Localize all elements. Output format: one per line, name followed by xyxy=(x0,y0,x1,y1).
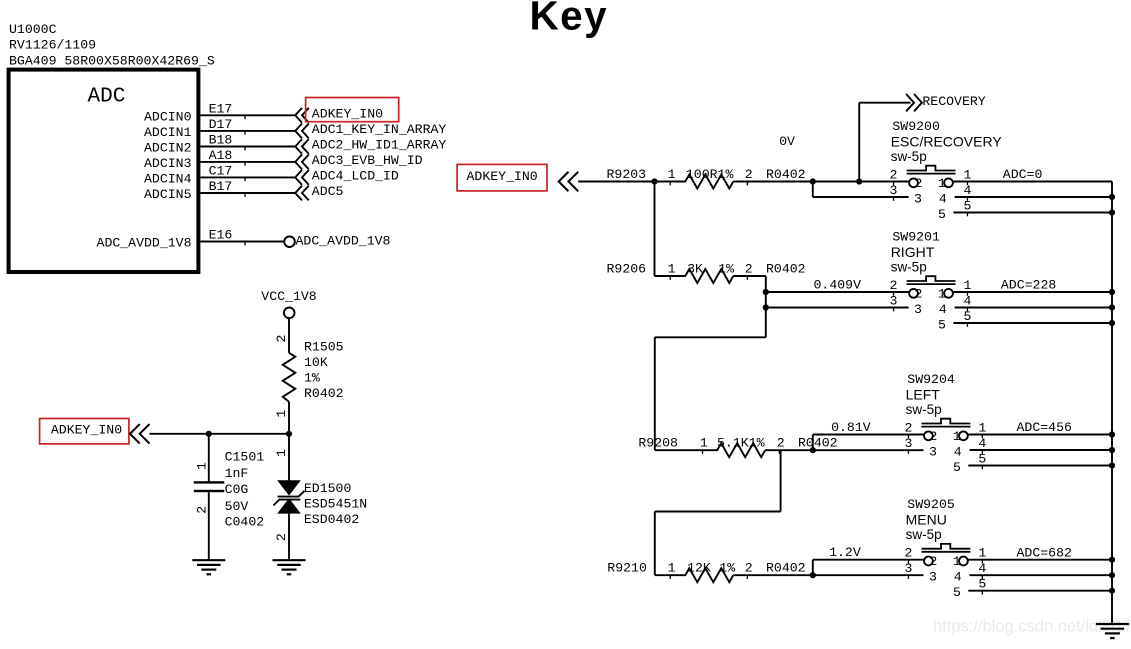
svg-text:SW9204: SW9204 xyxy=(907,372,955,387)
net label ADKEY_IN0 (red box, left) xyxy=(40,419,129,444)
off-page connector net ADKEY_IN0 xyxy=(295,106,383,122)
svg-text:3: 3 xyxy=(929,570,937,585)
wire ADKEY_IN0 to R9203 xyxy=(578,181,686,183)
svg-text:2: 2 xyxy=(890,167,898,182)
svg-text:sw-5p: sw-5p xyxy=(906,527,942,542)
pin numbers (outer) xyxy=(890,167,972,216)
svg-text:ADKEY_IN0: ADKEY_IN0 xyxy=(51,423,122,438)
svg-text:https://blog.csdn.net/ldl8l17: https://blog.csdn.net/ldl8l17 xyxy=(933,618,1131,636)
junction SW9201 pin2 xyxy=(763,289,769,295)
voltage label 0.81V xyxy=(831,420,871,435)
svg-text:ADC5: ADC5 xyxy=(312,184,344,199)
wire chain down to R9206 xyxy=(654,182,656,277)
svg-text:ADC_AVDD_1V8: ADC_AVDD_1V8 xyxy=(97,236,192,251)
svg-text:ADKEY_IN0: ADKEY_IN0 xyxy=(467,169,538,184)
IC U1000C RV1126/1109 ADC block xyxy=(9,22,215,272)
wire SW9200 pin1 to bus xyxy=(953,181,1112,183)
off-page connector net RECOVERY xyxy=(906,94,986,111)
value label ADC=228 xyxy=(1001,278,1056,293)
svg-text:ADCIN1: ADCIN1 xyxy=(144,125,192,140)
svg-text:1%: 1% xyxy=(304,370,320,385)
svg-text:R0402: R0402 xyxy=(766,262,806,277)
junction pin3 step xyxy=(810,178,816,184)
TVS diode ED1500 ESD5451N ESD0402 xyxy=(273,449,367,541)
junction bus/SW9200 pin4 xyxy=(1109,194,1115,200)
svg-text:ADC2_HW_ID1_ARRAY: ADC2_HW_ID1_ARRAY xyxy=(312,138,447,153)
wire stub up to SW9204 pin2 xyxy=(813,435,925,451)
svg-text:B18: B18 xyxy=(209,133,233,148)
svg-text:B17: B17 xyxy=(209,179,233,194)
svg-text:5: 5 xyxy=(953,585,961,600)
svg-text:1: 1 xyxy=(274,449,289,457)
wire to SW9201 pin3 xyxy=(766,307,909,309)
svg-text:1: 1 xyxy=(963,167,971,182)
pin ADCIN4 (C17) wire xyxy=(144,164,296,187)
svg-text:1%: 1% xyxy=(719,561,735,576)
pin ADCIN1 (D17) wire xyxy=(144,117,296,140)
svg-text:C0G: C0G xyxy=(225,482,249,497)
svg-text:4: 4 xyxy=(939,302,947,317)
wire ADKEY_IN0 node horizontal xyxy=(150,433,290,435)
svg-text:2: 2 xyxy=(745,167,753,182)
svg-text:ADCIN3: ADCIN3 xyxy=(144,156,192,171)
ground (bus) xyxy=(1096,624,1129,638)
pin ADCIN0 (E17) wire xyxy=(144,102,296,125)
wire R1505 to node xyxy=(288,402,290,434)
svg-text:1nF: 1nF xyxy=(225,466,249,481)
svg-text:ADCIN0: ADCIN0 xyxy=(144,109,192,124)
junction RECOVERY branch xyxy=(856,178,862,184)
wire SW9204 pin4 to bus xyxy=(970,449,1113,451)
voltage label 1.2V xyxy=(829,545,861,560)
pin ADCIN2 (B18) wire xyxy=(144,133,296,156)
svg-text:1: 1 xyxy=(953,554,961,569)
voltage label 0V xyxy=(779,134,795,149)
pin numbers (outer) xyxy=(904,420,986,469)
resistor R9203 100R1% R0402 xyxy=(607,167,806,189)
svg-text:R9210: R9210 xyxy=(607,561,647,576)
svg-text:1: 1 xyxy=(194,462,209,470)
svg-text:1: 1 xyxy=(274,410,289,418)
svg-text:sw-5p: sw-5p xyxy=(891,149,927,164)
wire step down to pin3 xyxy=(813,182,909,198)
svg-text:1: 1 xyxy=(953,429,961,444)
svg-text:2: 2 xyxy=(929,554,937,569)
junction to R9206 chain xyxy=(651,178,657,184)
switch SW9200 ESC/RECOVERY sw-5p xyxy=(890,119,1003,222)
pin numbers (outer) xyxy=(890,278,972,327)
wire R9206 row xyxy=(655,275,766,277)
svg-text:5: 5 xyxy=(938,317,946,332)
svg-text:100R1%: 100R1% xyxy=(686,167,734,182)
wire to SW9201 pin2 xyxy=(766,291,910,293)
svg-text:E16: E16 xyxy=(209,228,233,243)
svg-text:SW9201: SW9201 xyxy=(892,229,940,244)
wire chain vertical at 765.8 xyxy=(765,276,767,337)
wire node to ED1500 xyxy=(288,434,290,481)
svg-text:2: 2 xyxy=(914,287,922,302)
svg-text:ADC4_LCD_ID: ADC4_LCD_ID xyxy=(312,168,399,183)
svg-text:5: 5 xyxy=(938,207,946,222)
wire C1501 to ground xyxy=(208,492,210,560)
junction C1501 branch xyxy=(206,431,212,437)
svg-text:2: 2 xyxy=(274,335,289,343)
svg-text:RV1126/1109: RV1126/1109 xyxy=(9,38,96,53)
svg-text:RIGHT: RIGHT xyxy=(891,244,935,260)
pin numbers (outer) xyxy=(904,546,986,595)
pin ADCIN3 (A18) wire xyxy=(144,148,296,171)
pin ADC_AVDD_1V8 (E16) wire xyxy=(97,228,284,251)
svg-text:R0402: R0402 xyxy=(304,386,344,401)
svg-text:0.409V: 0.409V xyxy=(814,278,862,293)
svg-text:2: 2 xyxy=(904,546,912,561)
svg-text:R1505: R1505 xyxy=(304,340,344,355)
svg-text:RECOVERY: RECOVERY xyxy=(922,94,985,109)
svg-text:ADC1_KEY_IN_ARRAY: ADC1_KEY_IN_ARRAY xyxy=(312,122,447,137)
svg-text:2: 2 xyxy=(274,533,289,541)
svg-text:2: 2 xyxy=(745,561,753,576)
wire to RECOVERY xyxy=(859,103,910,182)
junction R1505/ED1500 branch xyxy=(286,431,292,437)
pin ADCIN5 (B17) wire xyxy=(144,179,296,202)
off-page connector ADKEY_IN0 left xyxy=(130,424,150,444)
svg-text:1: 1 xyxy=(938,287,946,302)
svg-text:R9208: R9208 xyxy=(638,436,678,451)
svg-text:2: 2 xyxy=(890,278,898,293)
svg-text:1: 1 xyxy=(963,278,971,293)
junction SW9201 pin3 xyxy=(763,304,769,310)
junction bus/SW9201 pin5 xyxy=(1109,320,1115,326)
junction SW9205 pin2 stub xyxy=(810,572,816,578)
off-page connector net ADC2_HW_ID1_ARRAY xyxy=(295,138,446,154)
off-page connector net ADC4_LCD_ID xyxy=(295,168,399,184)
svg-text:5.1K1%: 5.1K1% xyxy=(717,436,765,451)
wire SW9205 pin4 to bus xyxy=(970,574,1113,576)
value label ADC=682 xyxy=(1017,545,1072,560)
wire ED1500 to ground xyxy=(288,514,290,560)
pin numbers (inner) xyxy=(929,429,962,475)
svg-text:2: 2 xyxy=(929,429,937,444)
svg-text:SW9205: SW9205 xyxy=(907,497,955,512)
wire chain drop at 780.6 xyxy=(780,450,782,511)
svg-text:12K: 12K xyxy=(687,561,711,576)
svg-text:ADKEY_IN0: ADKEY_IN0 xyxy=(312,106,383,121)
svg-text:1: 1 xyxy=(938,176,946,191)
svg-text:BGA409 58R00X58R00X42R69_S: BGA409 58R00X58R00X42R69_S xyxy=(9,53,215,68)
wire SW9200 pin4 to bus xyxy=(955,196,1112,198)
svg-text:C1501: C1501 xyxy=(225,450,265,465)
svg-text:R0402: R0402 xyxy=(766,561,806,576)
svg-text:ADC=228: ADC=228 xyxy=(1001,278,1056,293)
svg-text:ESD0402: ESD0402 xyxy=(304,512,359,527)
svg-text:C17: C17 xyxy=(209,164,233,179)
svg-text:1%: 1% xyxy=(718,262,734,277)
junction bus/SW9204 pin5 xyxy=(1109,462,1115,468)
svg-text:C0402: C0402 xyxy=(225,514,265,529)
wire VCC to R1505 xyxy=(288,318,290,353)
wire SW9201 pin1 to bus xyxy=(953,291,1112,293)
voltage label 0.409V xyxy=(814,278,862,293)
wire R9203 to SW9200 pin2 xyxy=(733,181,909,183)
svg-text:D17: D17 xyxy=(209,117,233,132)
red highlight box ADKEY_IN0 (top) xyxy=(306,98,399,122)
svg-text:ADC_AVDD_1V8: ADC_AVDD_1V8 xyxy=(296,234,391,249)
junction bus/SW9200 pin5 xyxy=(1109,209,1115,215)
svg-text:3: 3 xyxy=(929,444,937,459)
capacitor C1501 1nF C0G 50V C0402 xyxy=(194,450,264,530)
wire chain corner to R9210 xyxy=(655,512,781,576)
svg-text:0.81V: 0.81V xyxy=(831,420,871,435)
pin numbers (inner) xyxy=(914,176,947,222)
svg-text:ADC=0: ADC=0 xyxy=(1003,167,1043,182)
svg-text:4: 4 xyxy=(954,444,962,459)
pin numbers (inner) xyxy=(929,554,962,600)
svg-text:R9203: R9203 xyxy=(607,167,647,182)
wire R9208 row to SW9204 pin3 xyxy=(655,449,924,451)
svg-text:E17: E17 xyxy=(209,102,233,117)
svg-text:LEFT: LEFT xyxy=(906,386,941,402)
svg-text:1: 1 xyxy=(668,262,676,277)
svg-text:2: 2 xyxy=(194,506,209,514)
svg-text:1.2V: 1.2V xyxy=(829,545,861,560)
junction SW9204 pin2 stub xyxy=(810,447,816,453)
svg-text:ADCIN2: ADCIN2 xyxy=(144,141,191,156)
svg-text:3: 3 xyxy=(914,302,922,317)
svg-text:ED1500: ED1500 xyxy=(304,481,352,496)
wire SW9204 pin1 to bus xyxy=(968,434,1112,436)
junction bus/SW9204 pin1 xyxy=(1109,431,1115,437)
svg-text:1: 1 xyxy=(668,167,676,182)
svg-text:R0402: R0402 xyxy=(798,436,838,451)
svg-text:ADCIN5: ADCIN5 xyxy=(144,187,192,202)
svg-text:ADC: ADC xyxy=(88,86,126,109)
wire SW9201 pin4 to bus xyxy=(955,307,1112,309)
wire node to C1501 xyxy=(208,434,210,482)
svg-text:50V: 50V xyxy=(225,499,249,514)
net label ADKEY_IN0 (red box, right) xyxy=(457,164,547,191)
wire SW9205 pin5 to bus xyxy=(968,590,1112,592)
wire R9210 row to SW9205 pin3 xyxy=(655,574,924,576)
watermark xyxy=(933,618,1131,636)
value label ADC=0 xyxy=(1003,167,1043,182)
svg-text:Key: Key xyxy=(530,0,609,39)
wire SW9205 pin1 to bus xyxy=(968,559,1112,561)
pin numbers (inner) xyxy=(914,287,947,333)
wire chain corner to R9208 xyxy=(655,337,766,450)
resistor R9208 5.1K1% R0402 xyxy=(638,436,837,458)
junction bus/SW9201 pin4 xyxy=(1109,304,1115,310)
svg-text:U1000C: U1000C xyxy=(9,22,57,37)
svg-text:2: 2 xyxy=(745,262,753,277)
svg-text:1: 1 xyxy=(700,436,708,451)
wire SW9201 pin5 to bus xyxy=(953,322,1112,324)
resistor R9206 3K 1% R0402 xyxy=(607,262,806,284)
junction bus/SW9204 pin4 xyxy=(1109,447,1115,453)
ground (ED1500) xyxy=(273,560,306,574)
svg-text:10K: 10K xyxy=(304,355,328,370)
off-page connector net ADC3_EVB_HW_ID xyxy=(295,153,422,169)
junction bus/SW9205 pin4 xyxy=(1109,572,1115,578)
svg-text:2: 2 xyxy=(904,420,912,435)
svg-text:sw-5p: sw-5p xyxy=(891,259,927,274)
svg-text:2: 2 xyxy=(777,436,785,451)
wire stub up to SW9205 pin2 xyxy=(813,560,925,576)
svg-text:ESC/RECOVERY: ESC/RECOVERY xyxy=(891,133,1003,149)
wire SW9200 pin5 to bus xyxy=(953,212,1112,214)
switch SW9204 LEFT sw-5p xyxy=(904,372,986,475)
resistor R9210 12K 1% R0402 xyxy=(607,561,805,583)
svg-text:1: 1 xyxy=(978,420,986,435)
svg-text:SW9200: SW9200 xyxy=(892,119,940,134)
svg-text:ESD5451N: ESD5451N xyxy=(304,497,367,512)
power connector ADC_AVDD_1V8 xyxy=(284,234,390,249)
svg-text:5: 5 xyxy=(953,460,961,475)
svg-text:3K: 3K xyxy=(687,262,703,277)
svg-text:3: 3 xyxy=(914,191,922,206)
junction bus/SW9205 pin1 xyxy=(1109,557,1115,563)
svg-text:4: 4 xyxy=(939,191,947,206)
svg-text:VCC_1V8: VCC_1V8 xyxy=(261,289,316,304)
value label ADC=456 xyxy=(1017,420,1072,435)
switch SW9201 RIGHT sw-5p xyxy=(890,229,972,332)
svg-text:ADC3_EVB_HW_ID: ADC3_EVB_HW_ID xyxy=(312,153,423,168)
resistor R1505 10K 1% R0402 xyxy=(274,335,343,418)
svg-text:A18: A18 xyxy=(209,148,233,163)
svg-text:R0402: R0402 xyxy=(766,167,806,182)
junction bus/SW9205 pin5 xyxy=(1109,588,1115,594)
wire SW9204 pin5 to bus xyxy=(968,465,1112,467)
svg-text:sw-5p: sw-5p xyxy=(906,402,942,417)
wire right bus vertical xyxy=(1111,182,1113,623)
svg-text:ADC=456: ADC=456 xyxy=(1017,420,1072,435)
svg-text:R9206: R9206 xyxy=(607,262,647,277)
off-page connector net ADC5 xyxy=(295,184,343,200)
off-page connector net ADC1_KEY_IN_ARRAY xyxy=(295,122,446,138)
svg-text:ADCIN4: ADCIN4 xyxy=(144,171,192,186)
svg-text:4: 4 xyxy=(954,570,962,585)
svg-text:ADC=682: ADC=682 xyxy=(1017,545,1072,560)
sheet title Key xyxy=(530,0,609,39)
power VCC_1V8 xyxy=(261,289,316,318)
svg-text:1: 1 xyxy=(668,561,676,576)
svg-text:MENU: MENU xyxy=(906,512,947,528)
ground (C1501) xyxy=(192,560,225,574)
svg-text:2: 2 xyxy=(914,176,922,191)
svg-text:1: 1 xyxy=(978,546,986,561)
off-page connector ADKEY_IN0 right xyxy=(559,172,579,192)
switch SW9205 MENU sw-5p xyxy=(904,497,986,600)
svg-text:0V: 0V xyxy=(779,134,795,149)
junction bus/SW9201 pin1 xyxy=(1109,289,1115,295)
